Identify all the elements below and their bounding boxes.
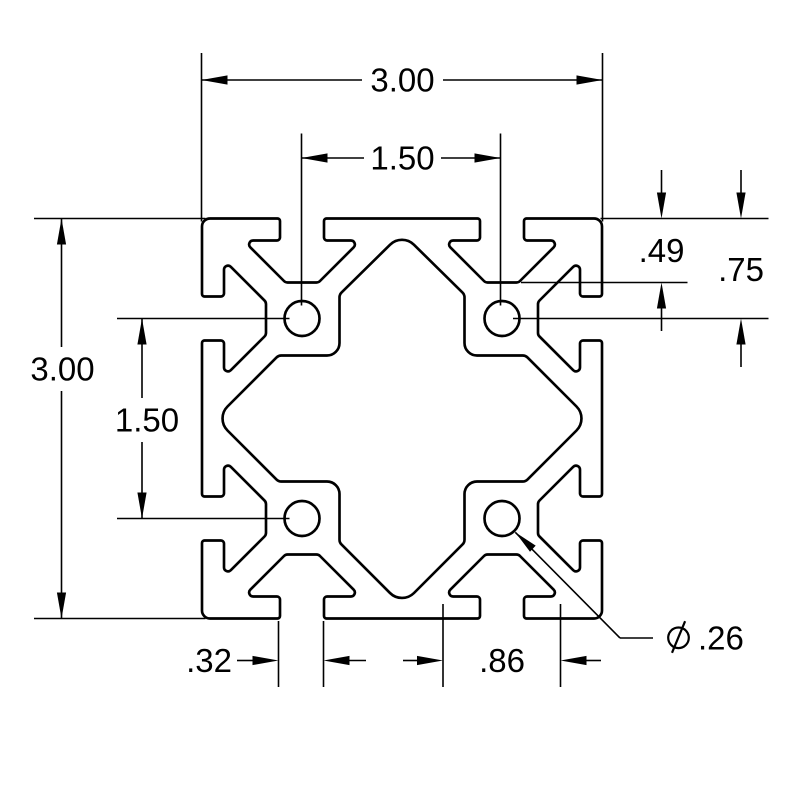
left extension line bottom edge (y=618.5) [34,618,206,620]
dimension .86: outside arrows [403,660,417,662]
hole top-right [485,301,520,336]
dimension 1.50 horizontal top: line + arrows [302,157,365,159]
dimension 3.00 horizontal top: line + arrows [202,79,363,81]
hole top-left [285,301,320,336]
top face extension line right (x=602.5) [602,53,604,222]
left extension line hole row 1 (y=318.5) [117,318,290,320]
left extension line top edge (y=218.5) [34,218,206,220]
svg-text:.86: .86 [479,642,525,679]
dimension .75: outside arrows [740,170,742,193]
bottom extension slot cavity right (x=560.5) [560,604,562,687]
extrusion outer profile with T-slots [202,219,602,619]
dimension .49: outside arrows [661,170,663,193]
svg-text:3.00: 3.00 [370,62,434,99]
svg-text:3.00: 3.00 [30,351,94,388]
svg-text:.75: .75 [718,251,764,288]
hole bottom-right [485,501,520,536]
top face extension line left (x=201.5) [201,53,203,222]
hole centerline extension right (x=500.5) [500,134,502,306]
svg-text:.32: .32 [186,642,232,679]
bottom extension slot opening left (x=278.5) [278,621,280,687]
extension of slot depth line (y=282.5) [521,282,688,284]
dimension 3.00 vertical left: line + arrows [61,219,63,348]
central cavity contour [223,240,582,598]
svg-text:1.50: 1.50 [370,140,434,177]
svg-text:.49: .49 [639,232,685,269]
svg-text:.26: .26 [698,620,744,657]
left extension line hole row 2 (y=518.5) [117,518,290,520]
bottom extension slot cavity left (x=443) [442,604,444,687]
dimension .32: outside arrows [237,660,253,662]
leader line for hole diameter [620,637,653,639]
hole bottom-left [285,501,320,536]
bottom extension slot opening right (x=323.5) [323,621,325,687]
diameter symbol [668,628,689,649]
right extension of top face (y=218.5) [601,218,769,220]
right extension of hole row (y=318.5) [513,318,769,320]
hole centerline extension left (x=301.5) [301,134,303,306]
dimension 1.50 vertical left: line + arrows [141,319,143,399]
svg-text:1.50: 1.50 [115,402,179,439]
